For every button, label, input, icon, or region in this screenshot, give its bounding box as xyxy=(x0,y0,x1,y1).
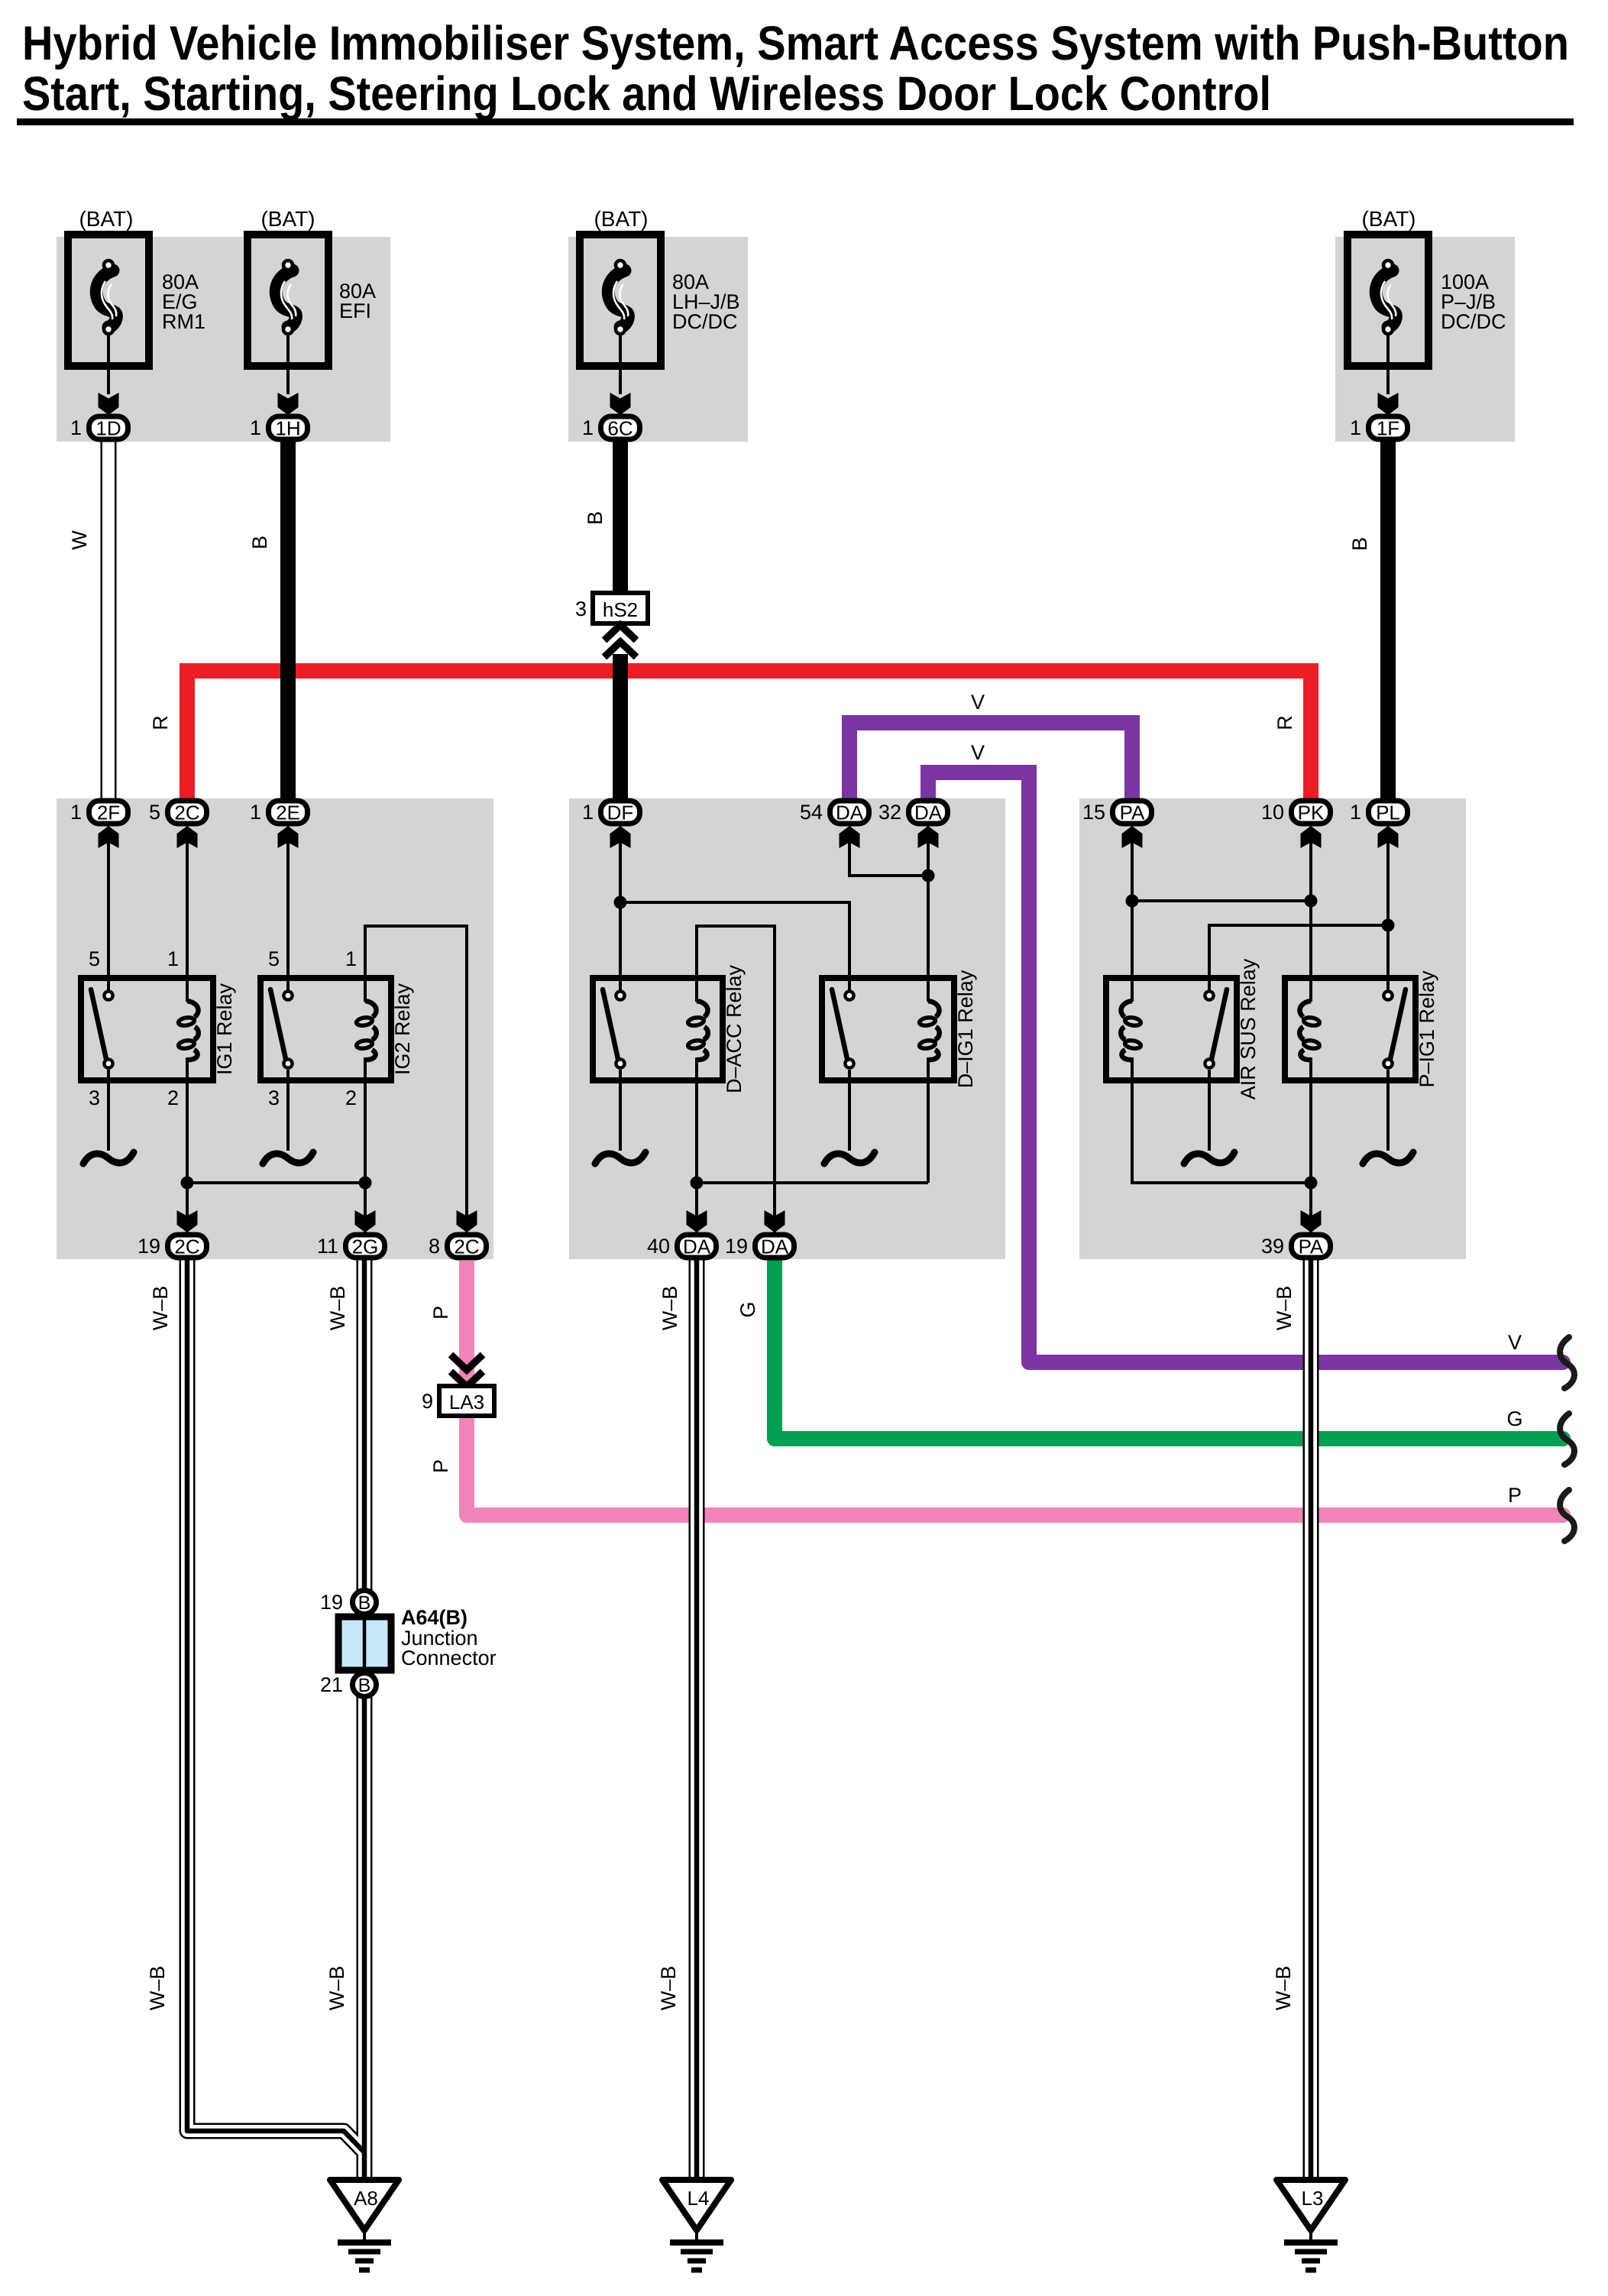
svg-text:(BAT): (BAT) xyxy=(594,207,648,231)
svg-text:11: 11 xyxy=(317,1235,338,1258)
wire PL(1) to P-IG1 switch xyxy=(1386,827,1390,990)
svg-text:DF: DF xyxy=(607,801,634,824)
svg-text:IG2 Relay: IG2 Relay xyxy=(391,983,414,1075)
svg-text:PA: PA xyxy=(1120,801,1145,824)
arrow into 1F xyxy=(1378,393,1399,415)
arrow into top connector x=1817 xyxy=(1378,826,1399,848)
svg-text:8: 8 xyxy=(429,1235,440,1258)
wire junction IG1-IG2 coils xyxy=(187,1181,365,1184)
connector DF pin 1 xyxy=(601,801,640,824)
svg-text:A8: A8 xyxy=(354,2187,378,2210)
svg-text:RM1: RM1 xyxy=(162,310,205,333)
break symbol G wire xyxy=(1560,1414,1574,1465)
svg-text:D–IG1 Relay: D–IG1 Relay xyxy=(954,970,977,1088)
junction dot DF branch xyxy=(614,896,627,909)
open end IG2 switch xyxy=(263,1152,313,1164)
wire W-B from PA(39) to ground L3 : outline xyxy=(1303,1260,1319,2180)
wire junction D-ACC/D-IG1 coils xyxy=(697,1181,928,1184)
connector 1H xyxy=(269,416,308,439)
svg-text:AIR SUS Relay: AIR SUS Relay xyxy=(1237,958,1260,1099)
arrow chevrons into LA3 xyxy=(451,1355,483,1370)
connector 2C pin 8 xyxy=(448,1235,487,1258)
wire AIR SUS coil bottom over to PA(39) xyxy=(1132,1057,1311,1183)
svg-text:IG1 Relay: IG1 Relay xyxy=(213,983,236,1075)
break symbol P wire xyxy=(1560,1490,1574,1541)
svg-text:W–B: W–B xyxy=(1273,1286,1296,1331)
arrow into 6C xyxy=(610,393,631,415)
svg-text:P–IG1 Relay: P–IG1 Relay xyxy=(1415,970,1438,1088)
svg-text:2E: 2E xyxy=(276,801,300,824)
wire P-IG1 coil bottom to PA(39) xyxy=(1309,1057,1312,1232)
wire 2F to IG1 switch pin 5 xyxy=(107,827,110,990)
arrow into 1D xyxy=(99,393,119,415)
wire D-IG1 coil bottom xyxy=(927,1057,930,1183)
svg-text:DA: DA xyxy=(836,801,864,824)
arrow into top connector x=1215 xyxy=(918,826,939,848)
wire junction PA-PK xyxy=(1132,899,1311,902)
junction dot PA branch xyxy=(1126,895,1139,908)
connector DA pin 19 xyxy=(755,1235,794,1258)
wire DA(32) to D-IG1 coil pin xyxy=(927,827,930,1002)
wire W-B from 2G(11) through A64(B) to ground A8 : outline xyxy=(357,1260,373,2180)
svg-text:40: 40 xyxy=(647,1235,670,1258)
connector 2C pin 19 xyxy=(168,1235,207,1258)
wire B from hS2 to DF xyxy=(613,654,628,802)
arrow into top connector x=812 xyxy=(610,826,631,848)
connector DA pin 32 xyxy=(909,801,948,824)
svg-text:PL: PL xyxy=(1376,801,1400,824)
svg-text:39: 39 xyxy=(1261,1235,1284,1258)
junction dot DA54/DA32 xyxy=(922,870,935,882)
svg-text:2: 2 xyxy=(167,1086,179,1109)
wire W-B from DA(40) to ground L4 : white core xyxy=(691,1260,703,2180)
connector 2G pin 11 xyxy=(346,1235,385,1258)
wire B from 1F to PL xyxy=(1380,442,1396,802)
svg-text:DA: DA xyxy=(914,801,943,824)
svg-text:P: P xyxy=(1508,1484,1522,1507)
svg-text:Connector: Connector xyxy=(401,1647,497,1669)
junction dot IG2 coil bottom xyxy=(359,1177,372,1190)
svg-text:B: B xyxy=(1348,537,1371,551)
svg-text:W: W xyxy=(68,530,91,550)
svg-text:DC/DC: DC/DC xyxy=(1441,310,1506,333)
title underline xyxy=(17,118,1574,125)
svg-text:R: R xyxy=(149,715,172,730)
relay P-IG1 xyxy=(1285,978,1415,1080)
wire IG1 switch pin 3 down xyxy=(107,1070,110,1151)
svg-text:54: 54 xyxy=(800,801,823,824)
arrow into top connector x=142 xyxy=(99,826,119,848)
arrow into bottom connector x=1014 xyxy=(765,1210,785,1232)
wire B from 1H to 2E xyxy=(280,442,296,802)
wire W-B from PA(39) to ground L3 : black stripe xyxy=(1309,1260,1314,2180)
junction dot IG1 coil bottom xyxy=(181,1177,194,1190)
svg-text:(BAT): (BAT) xyxy=(79,207,133,231)
wire W-B from 2C(19) to ground join : outline xyxy=(187,1260,364,2152)
svg-text:B: B xyxy=(358,1675,371,1696)
svg-text:1: 1 xyxy=(250,416,261,439)
wire B from 6C to hS2 xyxy=(613,442,628,593)
open end P-IG1 switch xyxy=(1363,1152,1413,1164)
connector 2F pin 1 xyxy=(89,801,128,824)
arrow into top connector x=1716 xyxy=(1301,826,1322,848)
wire IG2 coil pin 1 up-over to 2C(8) xyxy=(365,926,467,1232)
relay D-IG1 xyxy=(822,978,954,1080)
wire PA(15) to AIR SUS coil xyxy=(1131,827,1134,1002)
connector PL pin 1 xyxy=(1369,801,1408,824)
svg-text:Start, Starting, Steering Lock: Start, Starting, Steering Lock and Wirel… xyxy=(22,67,1271,121)
svg-text:2F: 2F xyxy=(97,801,120,824)
svg-text:2C: 2C xyxy=(174,1235,199,1258)
svg-text:Hybrid Vehicle Immobiliser Sys: Hybrid Vehicle Immobiliser System, Smart… xyxy=(22,17,1569,70)
svg-text:P: P xyxy=(429,1459,452,1473)
connector 6C xyxy=(601,416,640,439)
svg-text:19: 19 xyxy=(725,1235,748,1258)
arrow chevrons into hS2 xyxy=(604,625,636,640)
relay IG2 xyxy=(260,978,391,1080)
junction dot PL branch xyxy=(1382,919,1395,932)
wire W-B from 2G(11) through A64(B) to ground A8 : white core xyxy=(358,1260,370,2180)
ground A8 xyxy=(330,2180,399,2230)
wire W-B from DA(40) to ground L4 : outline xyxy=(689,1260,705,2180)
svg-text:V: V xyxy=(1508,1331,1522,1354)
svg-text:G: G xyxy=(736,1301,759,1317)
svg-text:15: 15 xyxy=(1082,801,1105,824)
junction connector A64(B) box xyxy=(338,1617,391,1670)
svg-text:L3: L3 xyxy=(1302,2187,1324,2210)
svg-text:19: 19 xyxy=(320,1591,343,1614)
svg-text:1: 1 xyxy=(345,947,357,970)
arrow into top connector x=245 xyxy=(177,826,198,848)
svg-text:1: 1 xyxy=(582,416,594,439)
junction connector A64(B) pin 21 xyxy=(353,1673,377,1697)
svg-text:A64(B): A64(B) xyxy=(401,1606,468,1629)
svg-text:R: R xyxy=(1273,715,1296,730)
svg-text:10: 10 xyxy=(1261,801,1284,824)
wire P (pink) 2C(8) to LA3 xyxy=(459,1261,474,1386)
junction dot PK branch xyxy=(1305,895,1318,908)
svg-text:9: 9 xyxy=(422,1390,433,1413)
svg-text:1: 1 xyxy=(1350,416,1361,439)
connector 1D xyxy=(89,416,128,439)
connector PK pin 10 xyxy=(1292,801,1331,824)
gray block fuse group 1 (E/G RM1 + EFI) xyxy=(57,237,390,442)
gray block fuse 100A P-J/B DC/DC xyxy=(1335,237,1515,442)
wire 2E to IG2 switch pin 5 xyxy=(286,827,290,990)
ground L4 xyxy=(662,2180,731,2230)
arrow into top connector x=1482 xyxy=(1122,826,1143,848)
svg-text:2C: 2C xyxy=(454,1235,479,1258)
wire D-ACC coil top over to DA(19) xyxy=(697,926,775,1232)
open end AIR SUS switch xyxy=(1184,1152,1234,1164)
svg-text:5: 5 xyxy=(268,947,280,970)
junction dot P-IG1 coil bottom xyxy=(1305,1177,1318,1190)
svg-text:B: B xyxy=(584,511,607,525)
svg-text:1H: 1H xyxy=(275,417,300,440)
arrow into top connector x=377 xyxy=(278,826,299,848)
svg-text:P: P xyxy=(429,1306,452,1320)
wire D-ACC switch down xyxy=(619,1070,622,1151)
break symbol V wire xyxy=(1560,1337,1574,1388)
wire V (violet) DA(32) to right edge : run-out xyxy=(1029,1349,1563,1362)
wire W from 1D to 2F : outline xyxy=(101,442,117,798)
wire DF to D-ACC switch xyxy=(619,827,622,990)
svg-text:L4: L4 xyxy=(688,2187,710,2210)
connector DA pin 40 xyxy=(678,1235,717,1258)
svg-text:V: V xyxy=(971,741,985,764)
wire W from 1D to 2F : white core xyxy=(102,442,115,798)
wire P-IG1 switch down xyxy=(1386,1070,1390,1151)
connector PA pin 39 xyxy=(1292,1235,1331,1258)
svg-text:D–ACC Relay: D–ACC Relay xyxy=(723,964,746,1093)
ground L3 xyxy=(1276,2180,1345,2230)
svg-text:(BAT): (BAT) xyxy=(1361,207,1415,231)
relay IG1 xyxy=(81,978,213,1080)
arrow into top connector x=1112 xyxy=(840,826,860,848)
svg-text:LA3: LA3 xyxy=(449,1391,484,1414)
svg-text:1: 1 xyxy=(582,801,594,824)
connector 2E pin 1 xyxy=(269,801,308,824)
svg-text:W–B: W–B xyxy=(658,1286,681,1331)
svg-text:PA: PA xyxy=(1299,1235,1324,1258)
wire V (violet) DA(32) to right edge : riser xyxy=(928,772,1029,1352)
connector 2C pin 5 xyxy=(168,801,207,824)
svg-text:1: 1 xyxy=(70,416,82,439)
svg-text:EFI: EFI xyxy=(339,300,371,322)
wire P (pink) LA3 to right edge xyxy=(467,1416,1563,1515)
svg-text:DA: DA xyxy=(683,1235,711,1258)
wire W-B from 2C(19) to ground join : black stripe xyxy=(187,1260,364,2152)
svg-text:1: 1 xyxy=(70,801,82,824)
wire W-B from 2C(19) to ground join : white core xyxy=(187,1260,364,2152)
arrow into 1H xyxy=(278,393,299,415)
wire W-B from PA(39) to ground L3 : white core xyxy=(1305,1260,1317,2180)
gray block relay box IG1/IG2 xyxy=(57,798,493,1259)
svg-text:3: 3 xyxy=(268,1086,280,1109)
wire fuse1 to 1D xyxy=(107,342,110,394)
wire IG2 coil pin 2 to 2G(11) xyxy=(364,1057,367,1232)
open end D-ACC switch xyxy=(595,1152,645,1164)
open end IG1 switch xyxy=(83,1152,134,1164)
wire fuse4 to 1F xyxy=(1386,342,1390,394)
svg-text:6C: 6C xyxy=(607,417,633,440)
svg-text:W–B: W–B xyxy=(146,1966,169,2011)
relay D-ACC xyxy=(593,978,723,1080)
connector 1F xyxy=(1369,416,1408,439)
svg-text:2: 2 xyxy=(345,1086,357,1109)
svg-text:3: 3 xyxy=(575,597,587,620)
svg-text:DC/DC: DC/DC xyxy=(672,310,738,333)
svg-text:1D: 1D xyxy=(95,417,121,440)
junction dot D-ACC coil bottom xyxy=(691,1177,704,1190)
wire V (violet) DA(54) to PA(15) xyxy=(849,723,1132,807)
svg-text:W–B: W–B xyxy=(1272,1966,1295,2011)
open end D-IG1 switch xyxy=(824,1152,875,1164)
svg-text:2C: 2C xyxy=(174,801,199,824)
wire fuse2 to 1H xyxy=(286,342,290,394)
svg-text:W–B: W–B xyxy=(149,1286,172,1331)
gray block relay box AIR SUS/P-IG1 xyxy=(1079,798,1466,1259)
svg-text:V: V xyxy=(971,691,985,714)
svg-text:W–B: W–B xyxy=(657,1966,680,2011)
svg-text:21: 21 xyxy=(320,1673,343,1696)
svg-text:2G: 2G xyxy=(352,1235,379,1258)
svg-text:1F: 1F xyxy=(1377,417,1399,440)
gray block relay box D-ACC/D-IG1 xyxy=(569,798,1005,1259)
arrow into bottom connector x=611 xyxy=(457,1210,477,1232)
svg-text:5: 5 xyxy=(89,947,100,970)
wire fuse3 to 6C xyxy=(619,342,622,394)
svg-text:1: 1 xyxy=(167,947,179,970)
relay AIR SUS xyxy=(1106,978,1237,1080)
wire DA(54) down-over to D-IG1 coil line xyxy=(849,827,928,876)
svg-text:1: 1 xyxy=(250,801,261,824)
junction connector A64(B) pin 19 xyxy=(353,1591,377,1614)
wire 2C(5) to IG1 coil pin 1 xyxy=(186,827,189,1002)
connector hS2 box xyxy=(593,593,648,623)
wire W-B from DA(40) to ground L4 : black stripe xyxy=(694,1260,700,2180)
svg-text:W–B: W–B xyxy=(325,1966,348,2011)
wire G (green) DA(19) to right edge xyxy=(775,1261,1563,1439)
wire DF branch to D-IG1 switch xyxy=(620,902,849,990)
wire IG2 switch pin 3 down xyxy=(286,1070,290,1151)
svg-text:3: 3 xyxy=(89,1086,100,1109)
svg-text:hS2: hS2 xyxy=(603,598,638,621)
wire PK(10) to P-IG1 coil xyxy=(1309,827,1312,1002)
svg-text:PK: PK xyxy=(1298,801,1325,824)
connector DA pin 54 xyxy=(830,801,869,824)
arrow into bottom connector x=478 xyxy=(355,1210,376,1232)
svg-text:19: 19 xyxy=(138,1235,160,1258)
svg-text:32: 32 xyxy=(878,801,901,824)
wire AIR SUS switch down xyxy=(1208,1070,1211,1151)
connector LA3 box xyxy=(439,1386,494,1416)
connector PA pin 15 xyxy=(1113,801,1152,824)
svg-text:(BAT): (BAT) xyxy=(260,207,315,231)
svg-text:1: 1 xyxy=(1350,801,1361,824)
svg-text:DA: DA xyxy=(761,1235,789,1258)
svg-text:5: 5 xyxy=(149,801,160,824)
svg-text:W–B: W–B xyxy=(326,1286,349,1331)
wire D-IG1 switch down xyxy=(848,1070,851,1151)
wire R (red) from 2C(5) to PK(10) xyxy=(187,671,1311,807)
wire W-B from 2G(11) through A64(B) to ground A8 : black stripe xyxy=(362,1260,367,2180)
arrow into bottom connector x=245 xyxy=(177,1210,198,1232)
gray block fuse 80A LH-J/B DC/DC xyxy=(568,237,748,442)
wire D-ACC coil bottom to DA(40) xyxy=(695,1057,698,1232)
svg-text:B: B xyxy=(358,1592,371,1614)
svg-text:G: G xyxy=(1506,1407,1522,1430)
arrow into bottom connector x=1716 xyxy=(1301,1210,1322,1232)
arrow into bottom connector x=912 xyxy=(687,1210,707,1232)
wire PL branch to AIR SUS switch xyxy=(1209,925,1388,990)
wire IG1 coil pin 2 to 2C(19) xyxy=(186,1057,189,1232)
svg-text:B: B xyxy=(248,536,271,549)
